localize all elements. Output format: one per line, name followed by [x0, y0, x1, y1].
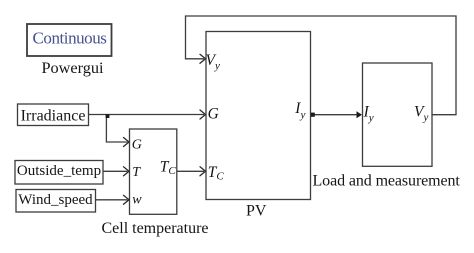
svg-text:Outside_temp: Outside_temp — [17, 163, 101, 179]
svg-text:Load and measurement: Load and measurement — [313, 173, 461, 190]
svg-text:w: w — [132, 192, 142, 207]
svg-text:Powergui: Powergui — [41, 58, 104, 77]
svg-text:Cell temperature: Cell temperature — [101, 220, 208, 237]
svg-text:Irradiance: Irradiance — [21, 108, 86, 125]
svg-text:Wind_speed: Wind_speed — [18, 192, 93, 208]
svg-text:T: T — [132, 165, 141, 180]
svg-text:G: G — [132, 137, 142, 152]
svg-text:Continuous: Continuous — [33, 29, 107, 48]
svg-text:PV: PV — [246, 203, 267, 220]
svg-text:G: G — [208, 106, 219, 123]
